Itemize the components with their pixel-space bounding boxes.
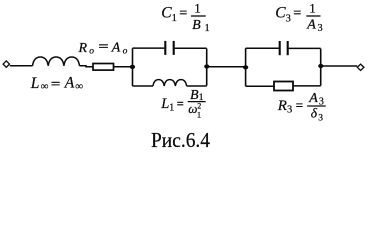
tank2 top wire right of C3 [289,47,321,49]
svg-text:3: 3 [287,104,292,115]
tank2 bottom wire right segment [293,85,321,87]
svg-text:o: o [89,46,94,56]
wire tank1 to tank2 [207,66,246,68]
svg-text:A: A [64,74,75,91]
svg-text:L: L [30,75,40,92]
svg-text:δ: δ [311,106,318,121]
tank2 right vertical wire [320,49,322,86]
inductor L_inf [33,57,80,66]
right terminal [357,64,364,70]
svg-text:o: o [123,46,128,56]
svg-text:3: 3 [318,23,323,34]
tank2 bottom wire left segment [246,85,274,87]
svg-text:1: 1 [197,109,201,119]
svg-text:∞: ∞ [41,81,49,93]
svg-text:3: 3 [286,14,291,25]
inductor L1 [153,80,187,86]
tank2 top wire left of C3 [246,47,279,49]
svg-text:A: A [111,40,121,55]
tank2 left vertical wire [245,48,247,86]
node dot tank2 right [318,64,323,68]
capacitor C3 [279,41,281,55]
wire between L_inf and R_o [80,66,94,67]
svg-text:1: 1 [194,0,201,15]
tank1 right vertical wire [206,49,208,86]
svg-text:A: A [308,91,318,106]
left terminal [3,61,9,67]
tank1 top wire right of C1 [175,47,207,49]
svg-text:R: R [277,98,287,114]
resistor R_o [93,64,114,71]
svg-text:1: 1 [309,0,316,15]
wire R_o to tank1 [114,66,133,68]
tank1 top wire left of C1 [133,47,165,49]
svg-text:A: A [306,18,316,33]
tank1 bottom wire left segment [133,85,154,87]
svg-text:L: L [160,96,169,112]
node dot tank2 left [243,65,248,69]
svg-text:1: 1 [172,13,177,24]
svg-text:Рис.6.4: Рис.6.4 [151,128,210,152]
svg-text:R: R [78,41,88,56]
capacitor C1 [164,41,166,55]
tank1 bottom wire right segment [187,85,207,87]
svg-text:1: 1 [205,23,210,34]
svg-text:1: 1 [169,103,174,114]
resistor R3 [274,82,293,91]
tank1 left vertical wire [132,48,134,86]
wire left lead [10,65,33,67]
node dot tank1 right [204,64,209,68]
node dot tank1 left [130,65,135,69]
svg-text:3: 3 [318,113,323,123]
wire tank2 to right terminal [321,65,358,67]
svg-text:∞: ∞ [75,81,83,93]
svg-text:B: B [192,18,201,33]
